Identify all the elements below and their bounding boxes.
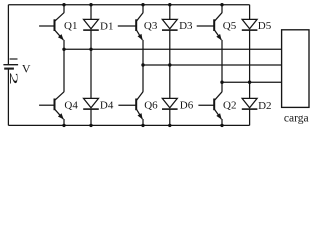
- svg-text:D1: D1: [100, 20, 113, 32]
- svg-text:D6: D6: [180, 100, 194, 112]
- svg-text:carga: carga: [284, 112, 309, 124]
- svg-text:D2: D2: [258, 100, 271, 112]
- svg-text:D5: D5: [258, 20, 272, 32]
- svg-text:V: V: [22, 62, 31, 76]
- svg-text:Q2: Q2: [223, 100, 236, 112]
- svg-text:Q3: Q3: [144, 20, 158, 32]
- svg-text:D3: D3: [179, 20, 193, 32]
- svg-text:D4: D4: [100, 100, 114, 112]
- svg-text:Q4: Q4: [64, 100, 78, 112]
- svg-text:Q6: Q6: [144, 100, 158, 112]
- svg-text:2: 2: [7, 72, 20, 85]
- svg-text:Q5: Q5: [223, 20, 237, 32]
- svg-text:Q1: Q1: [64, 20, 77, 32]
